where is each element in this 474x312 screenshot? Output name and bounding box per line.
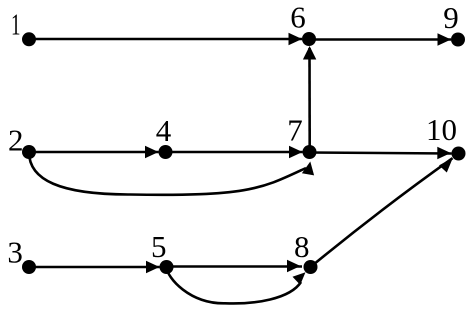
svg-text:2: 2 xyxy=(8,122,24,157)
svg-text:10: 10 xyxy=(426,112,457,147)
svg-text:7: 7 xyxy=(287,113,303,148)
svg-text:5: 5 xyxy=(151,229,167,264)
svg-text:8: 8 xyxy=(294,229,310,264)
svg-text:1: 1 xyxy=(11,7,21,42)
svg-text:9: 9 xyxy=(443,0,459,35)
svg-text:4: 4 xyxy=(156,113,172,148)
svg-text:6: 6 xyxy=(290,0,306,35)
svg-text:3: 3 xyxy=(7,234,23,269)
